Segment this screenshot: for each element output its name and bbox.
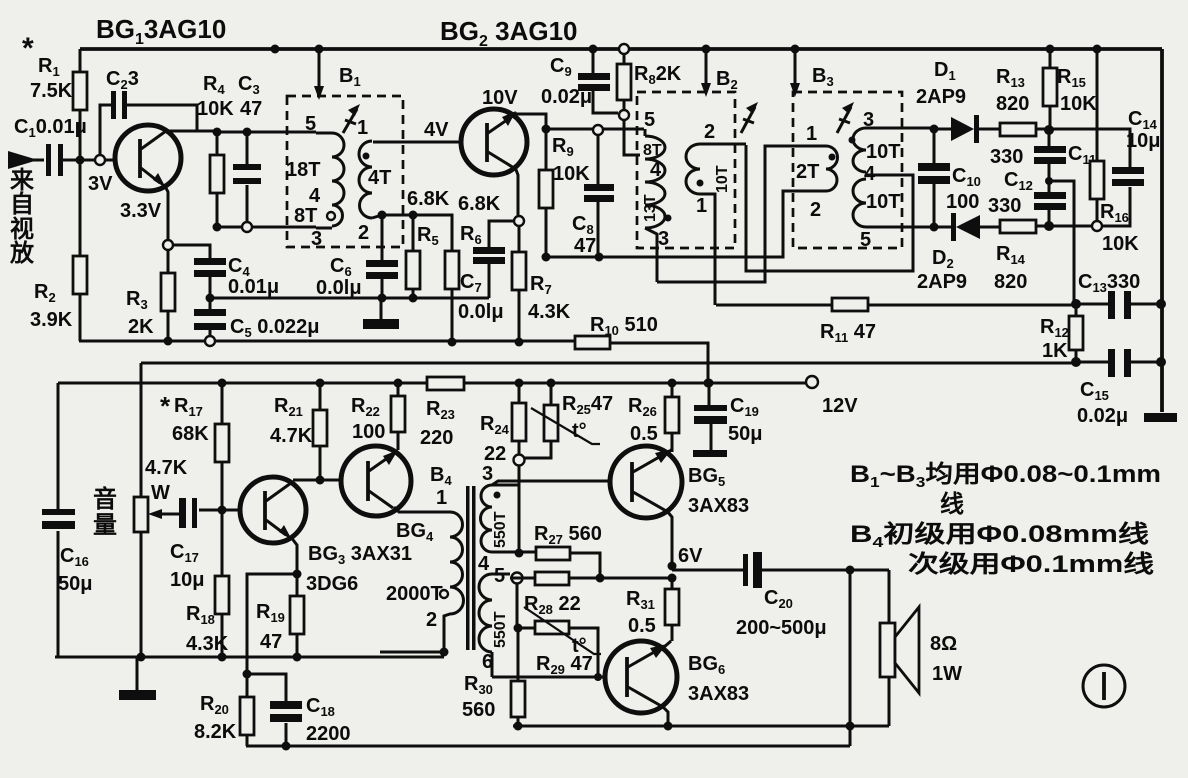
capacitor C20 (672, 569, 889, 572)
node D1 row (930, 125, 939, 134)
svg-text:47: 47 (574, 235, 596, 257)
resistor R27 (536, 547, 570, 560)
svg-text:C15: C15 (1080, 379, 1109, 403)
svg-text:C16: C16 (60, 545, 89, 569)
svg-text:B1~B3均用Φ0.08~0.1mm: B1~B3均用Φ0.08~0.1mm (850, 460, 1161, 491)
svg-text:820: 820 (996, 93, 1029, 115)
svg-text:C14: C14 (1128, 108, 1158, 132)
svg-text:3: 3 (311, 228, 322, 250)
svg-text:W: W (151, 482, 170, 504)
capacitor C6 (381, 215, 384, 298)
node pin4 (515, 549, 524, 558)
wire B3 core stem (794, 49, 797, 84)
svg-text:10T: 10T (866, 141, 900, 163)
svg-text:3: 3 (863, 109, 874, 131)
svg-text:R31: R31 (626, 588, 655, 612)
diode D1 (951, 117, 974, 141)
wire W2 audio bus (141, 362, 1076, 365)
svg-text:3.9K: 3.9K (30, 309, 73, 331)
svg-text:3DG6: 3DG6 (306, 573, 358, 595)
potentiometer W volume (134, 497, 148, 532)
wire BG1 collector row (217, 131, 316, 134)
svg-text:22: 22 (484, 443, 506, 465)
wire BG3 collector row (293, 479, 364, 482)
svg-text:330: 330 (990, 146, 1023, 168)
svg-text:R15: R15 (1057, 66, 1086, 90)
capacitor C10 (933, 129, 936, 227)
svg-text:4V: 4V (424, 119, 449, 141)
resistor R4 (216, 132, 219, 227)
resistor R13 (1000, 123, 1036, 136)
svg-text:t°: t° (572, 420, 587, 442)
wire R8 bottom to B2 tap4 (624, 120, 640, 155)
node rail B3 (791, 45, 800, 54)
svg-text:R13: R13 (996, 66, 1025, 90)
transformer B1 box (287, 96, 403, 247)
capacitor C4 (194, 258, 226, 265)
resistor R1 (79, 49, 82, 160)
svg-text:D2: D2 (932, 247, 954, 271)
svg-text:3: 3 (482, 463, 493, 485)
resistor R22 (394, 379, 403, 388)
svg-text:6.8K: 6.8K (407, 188, 450, 210)
resistor R12 (1075, 304, 1078, 362)
svg-text:5: 5 (305, 113, 316, 135)
svg-text:C23: C23 (106, 68, 139, 92)
svg-text:R9: R9 (552, 135, 574, 159)
svg-text:4: 4 (864, 163, 876, 185)
ground right-border (1144, 413, 1177, 422)
resistor R25 thermistor (547, 379, 556, 388)
resistor R31 (671, 578, 674, 641)
wire W1 upper-section bottom bus (79, 341, 708, 383)
svg-text:C18: C18 (306, 695, 335, 719)
capacitor C15 (1076, 361, 1161, 364)
svg-text:4.7K: 4.7K (145, 457, 188, 479)
wire pin4 row (517, 552, 600, 578)
resistor R2 (79, 160, 82, 341)
svg-text:2AP9: 2AP9 (916, 86, 966, 108)
resistor R15 (1046, 45, 1055, 54)
resistor R6 (445, 251, 459, 289)
resistor R3 (161, 273, 175, 311)
capacitor C1 (46, 144, 51, 176)
node B1 pin2 (378, 211, 387, 220)
wire pin5 row (512, 573, 523, 584)
svg-text:100: 100 (946, 191, 979, 213)
svg-text:8T: 8T (294, 205, 317, 227)
capacitor C2 (100, 105, 197, 155)
capacitor C11 (1048, 130, 1051, 181)
svg-text:47: 47 (240, 98, 262, 120)
capacitor C17 (162, 510, 238, 514)
transistor BG3 (238, 509, 265, 512)
svg-text:R22: R22 (351, 395, 380, 419)
node 6V (668, 562, 677, 571)
svg-text:10K: 10K (1060, 93, 1097, 115)
svg-text:4.3K: 4.3K (528, 301, 571, 323)
wire B2 core stem (705, 49, 708, 84)
svg-text:8T: 8T (643, 142, 662, 159)
wire volume pot column (140, 363, 143, 657)
svg-text:1K: 1K (1042, 340, 1068, 362)
svg-text:C10.01μ: C10.01μ (14, 116, 87, 140)
node D2 row (930, 223, 939, 232)
resistor R20 (246, 674, 249, 746)
svg-text:5: 5 (644, 109, 655, 131)
node C17-R17-R18 (218, 506, 227, 515)
node BG2 collector (542, 125, 551, 134)
capacitor C8 (597, 135, 600, 257)
svg-text:50μ: 50μ (58, 573, 92, 595)
svg-text:R19: R19 (256, 601, 285, 625)
wire emitter to R20 column (247, 574, 297, 674)
svg-text:R2: R2 (34, 281, 56, 305)
svg-text:3AX83: 3AX83 (688, 495, 749, 517)
node R12 top (1071, 299, 1081, 309)
resistor R24 (515, 379, 524, 388)
svg-text:10μ: 10μ (170, 569, 204, 591)
resistor R17 (218, 379, 227, 388)
wire B (746, 145, 913, 271)
resistor R30 (517, 628, 520, 726)
svg-text:C10: C10 (952, 165, 981, 189)
svg-text:R14: R14 (996, 243, 1026, 267)
svg-text:2K: 2K (128, 316, 154, 338)
wire right border (1160, 49, 1164, 412)
wire pin2 row (382, 215, 452, 251)
svg-text:47: 47 (260, 631, 282, 653)
wire B1 core adjust stem (318, 49, 321, 88)
svg-text:4: 4 (650, 159, 662, 181)
inductor B3 secondary 10T+10T (866, 128, 934, 227)
svg-text:R21: R21 (274, 395, 303, 419)
transistor BG6 (605, 641, 677, 713)
resistor R26 (668, 379, 677, 388)
svg-text:1W: 1W (932, 663, 962, 685)
svg-text:2: 2 (810, 199, 821, 221)
svg-text:2: 2 (358, 222, 369, 244)
svg-text:R20: R20 (200, 693, 229, 717)
svg-text:3AX83: 3AX83 (688, 683, 749, 705)
node W1-W3 junction (704, 379, 713, 388)
transistor BG4 (341, 446, 411, 516)
svg-text:6.8K: 6.8K (458, 193, 501, 215)
svg-text:3.3V: 3.3V (120, 200, 162, 222)
capacitor C18 (247, 674, 286, 746)
node BG3 emitter (293, 570, 302, 579)
node detector bottom row (1044, 221, 1054, 231)
svg-text:1: 1 (357, 117, 368, 139)
resistor R19 (296, 574, 299, 657)
svg-text:B2: B2 (716, 68, 738, 92)
svg-text:10T: 10T (714, 165, 731, 193)
svg-text:200~500μ: 200~500μ (736, 617, 827, 639)
svg-text:0.02μ: 0.02μ (541, 86, 592, 108)
wire R24 node down to pin4 (518, 465, 521, 553)
svg-text:*: * (160, 391, 171, 421)
wire bottom supply (246, 745, 850, 748)
svg-text:820: 820 (994, 271, 1027, 293)
core B4 (466, 486, 470, 650)
inductor B2 primary 8T+13T (645, 129, 657, 282)
svg-text:B1: B1 (339, 65, 361, 89)
capacitor C7 (489, 221, 514, 298)
svg-text:R18: R18 (186, 603, 215, 627)
svg-text:550T: 550T (492, 611, 509, 648)
svg-text:10K: 10K (1102, 233, 1139, 255)
B2 tuning arrow (741, 107, 755, 133)
ground AF (136, 657, 139, 690)
wire B2 pin3 row (657, 146, 826, 282)
wire A detector bus (546, 191, 783, 257)
wire pin5 node down (516, 583, 519, 628)
svg-text:2: 2 (426, 609, 437, 631)
svg-text:220: 220 (420, 427, 453, 449)
resistor R5 (412, 215, 415, 298)
svg-text:6: 6 (482, 651, 493, 673)
svg-text:330: 330 (988, 195, 1021, 217)
capacitor C14 (1112, 167, 1144, 174)
svg-text:R11 47: R11 47 (820, 321, 876, 345)
wire AF ground rail (55, 656, 444, 659)
wire R4C3 bottom row to B1 pin3 (217, 226, 316, 229)
svg-text:次级用Φ0.1mm线: 次级用Φ0.1mm线 (908, 550, 1154, 578)
svg-text:0.5: 0.5 (630, 423, 658, 445)
wire to C14 (1049, 129, 1130, 167)
svg-text:0.5: 0.5 (628, 615, 656, 637)
svg-text:4T: 4T (368, 167, 391, 189)
svg-text:R27 560: R27 560 (534, 523, 602, 547)
svg-text:B4: B4 (430, 464, 452, 488)
inductor B4 secondary lower 550T (492, 574, 510, 677)
svg-text:音: 音 (93, 485, 117, 513)
svg-text:7.5K: 7.5K (30, 80, 73, 102)
svg-text:10T: 10T (866, 191, 900, 213)
wire BG1 emitter branch (168, 245, 210, 273)
svg-text:BG3 3AX31: BG3 3AX31 (308, 543, 412, 567)
resistor R23 (427, 377, 464, 390)
svg-text:0.02μ: 0.02μ (1077, 405, 1128, 427)
resistor R7 (518, 226, 521, 342)
diode D2 (951, 213, 956, 241)
svg-text:R10 510: R10 510 (590, 314, 658, 338)
inductor B4 primary 2000T (444, 512, 463, 652)
resistor R8 (619, 44, 629, 54)
figure mark circled 1 (1083, 665, 1125, 707)
transistor BG2 (461, 109, 527, 175)
svg-text:2000T: 2000T (386, 583, 443, 605)
speaker (888, 570, 891, 726)
wire B4 pin3 to BG5 base (492, 481, 630, 485)
svg-text:R5: R5 (417, 224, 439, 248)
inductor B3 primary 2T (826, 146, 838, 191)
svg-text:560: 560 (462, 699, 495, 721)
wire output rail (513, 725, 889, 728)
svg-text:8Ω: 8Ω (930, 633, 957, 655)
svg-text:R1: R1 (38, 55, 60, 79)
svg-text:2200: 2200 (306, 723, 351, 745)
svg-text:13T: 13T (642, 194, 659, 222)
svg-text:0.0lμ: 0.0lμ (458, 301, 504, 323)
svg-text:来: 来 (10, 166, 35, 194)
svg-text:R17: R17 (174, 395, 203, 419)
svg-text:C8: C8 (572, 213, 594, 237)
svg-text:R2547: R2547 (562, 393, 613, 417)
svg-text:C17: C17 (170, 541, 199, 565)
svg-text:5: 5 (494, 565, 505, 587)
resistor R10 (575, 336, 610, 349)
svg-text:0.0lμ: 0.0lμ (316, 277, 362, 299)
svg-text:C13330: C13330 (1078, 271, 1140, 295)
svg-text:B4初级用Φ0.08mm线: B4初级用Φ0.08mm线 (850, 520, 1149, 551)
capacitor C13 (1076, 303, 1162, 306)
svg-text:R16: R16 (1100, 201, 1129, 225)
svg-text:BG4: BG4 (396, 520, 434, 544)
node detector top (1044, 125, 1054, 135)
svg-text:10K: 10K (553, 163, 590, 185)
capacitor C19 (705, 379, 714, 388)
svg-text:10V: 10V (482, 87, 518, 109)
wire pin6 to BG6 base (492, 676, 625, 679)
inductor B1 secondary 4T (372, 215, 382, 218)
resistor R28 (535, 572, 569, 585)
svg-text:10K: 10K (197, 98, 234, 120)
svg-text:4.7K: 4.7K (270, 425, 313, 447)
svg-text:C6: C6 (330, 255, 352, 279)
svg-text:D1: D1 (934, 59, 956, 83)
svg-text:*: * (22, 32, 34, 65)
resistor R16 (1093, 45, 1102, 54)
inductor B2 secondary 10T (686, 144, 746, 305)
svg-text:R4: R4 (203, 73, 225, 97)
svg-text:R82K: R82K (634, 63, 682, 87)
resistor R18 (221, 510, 224, 657)
svg-text:R12: R12 (1040, 316, 1069, 340)
node C15 row (1071, 357, 1081, 367)
input arrow (8, 151, 38, 169)
node rail B1 feeds (271, 45, 280, 54)
svg-text:1: 1 (436, 487, 447, 509)
svg-text:BG2 3AG10: BG2 3AG10 (440, 16, 578, 50)
svg-text:自: 自 (10, 190, 34, 218)
capacitor C12 (1048, 181, 1051, 226)
svg-text:8.2K: 8.2K (194, 721, 237, 743)
inductor B1 primary 18T+8T (316, 133, 332, 228)
svg-text:视: 视 (10, 216, 34, 243)
svg-text:5: 5 (860, 229, 871, 251)
svg-text:18T: 18T (286, 159, 320, 181)
svg-text:B3: B3 (812, 65, 834, 89)
svg-text:C5 0.022μ: C5 0.022μ (230, 316, 320, 340)
svg-text:R23: R23 (426, 398, 455, 422)
transformer B2 box (637, 92, 735, 248)
svg-text:50μ: 50μ (728, 423, 762, 445)
B3 tuning arrow (837, 107, 851, 133)
svg-text:0.01μ: 0.01μ (228, 276, 279, 298)
transistor BG1 (115, 125, 181, 191)
svg-text:量: 量 (93, 512, 117, 539)
transformer B3 box (793, 92, 902, 248)
node C11-C12 (1045, 177, 1053, 185)
inductor B4 secondary upper 550T (492, 485, 518, 552)
svg-text:4.3K: 4.3K (186, 633, 229, 655)
capacitor C16 (42, 509, 75, 515)
svg-text:1: 1 (696, 195, 707, 217)
node speaker top (846, 566, 855, 575)
svg-text:R29 47: R29 47 (536, 653, 593, 677)
svg-text:3V: 3V (88, 173, 113, 195)
capacitor C9 (589, 45, 598, 54)
svg-text:550T: 550T (492, 511, 509, 548)
capacitor C3 (246, 132, 249, 227)
svg-text:2T: 2T (796, 161, 819, 183)
wire BG2 base from B1 (373, 141, 485, 144)
svg-text:C7: C7 (460, 271, 482, 295)
resistor R9 (545, 129, 548, 257)
svg-text:2: 2 (704, 121, 715, 143)
svg-text:R24: R24 (480, 413, 510, 437)
wire top supply rail (80, 47, 1162, 51)
svg-text:BG6: BG6 (688, 653, 725, 677)
svg-text:4: 4 (478, 553, 490, 575)
svg-text:R6: R6 (460, 223, 482, 247)
svg-text:6V: 6V (678, 545, 703, 567)
svg-text:3: 3 (658, 228, 669, 250)
svg-text:R26: R26 (628, 395, 657, 419)
svg-text:4: 4 (309, 185, 321, 207)
node input (76, 156, 85, 165)
svg-text:100: 100 (352, 421, 385, 443)
terminal 12V (806, 376, 818, 388)
svg-text:BG13AG10: BG13AG10 (96, 14, 226, 48)
svg-text:2AP9: 2AP9 (917, 271, 967, 293)
node rail B2 (702, 45, 711, 54)
resistor R21 (316, 379, 325, 388)
svg-text:BG5: BG5 (688, 465, 725, 489)
wire C16 left column (57, 383, 60, 657)
svg-text:C20: C20 (764, 587, 793, 611)
svg-text:C3: C3 (238, 73, 260, 97)
wire ac-ground bus y298 (210, 297, 489, 300)
node R20 top (243, 670, 252, 679)
wire R11 bus (716, 304, 1076, 307)
node R27-R28 (596, 574, 605, 583)
svg-text:R30: R30 (464, 673, 493, 697)
resistor R14 (1000, 220, 1036, 233)
svg-text:线: 线 (940, 491, 964, 518)
svg-text:68K: 68K (172, 423, 209, 445)
svg-text:10μ: 10μ (1126, 130, 1160, 152)
svg-text:12V: 12V (822, 395, 858, 417)
resistor R29 thermistor (518, 628, 598, 676)
B1 tuning arrow (343, 109, 357, 133)
svg-text:R7: R7 (530, 273, 552, 297)
svg-text:C12: C12 (1004, 169, 1033, 193)
svg-text:C9: C9 (550, 55, 572, 79)
svg-text:R3: R3 (126, 288, 148, 312)
capacitor C5 (209, 298, 212, 336)
wire W3 lower supply rail (58, 382, 806, 385)
node BG2 emitter (514, 216, 524, 226)
svg-text:C19: C19 (730, 395, 759, 419)
svg-text:放: 放 (9, 239, 35, 267)
transistor BG5 (610, 446, 682, 518)
resistor R11 (832, 298, 868, 311)
wire B4 primary bottom (380, 651, 444, 654)
node C4-C5 (206, 294, 215, 303)
svg-text:1: 1 (806, 123, 817, 145)
